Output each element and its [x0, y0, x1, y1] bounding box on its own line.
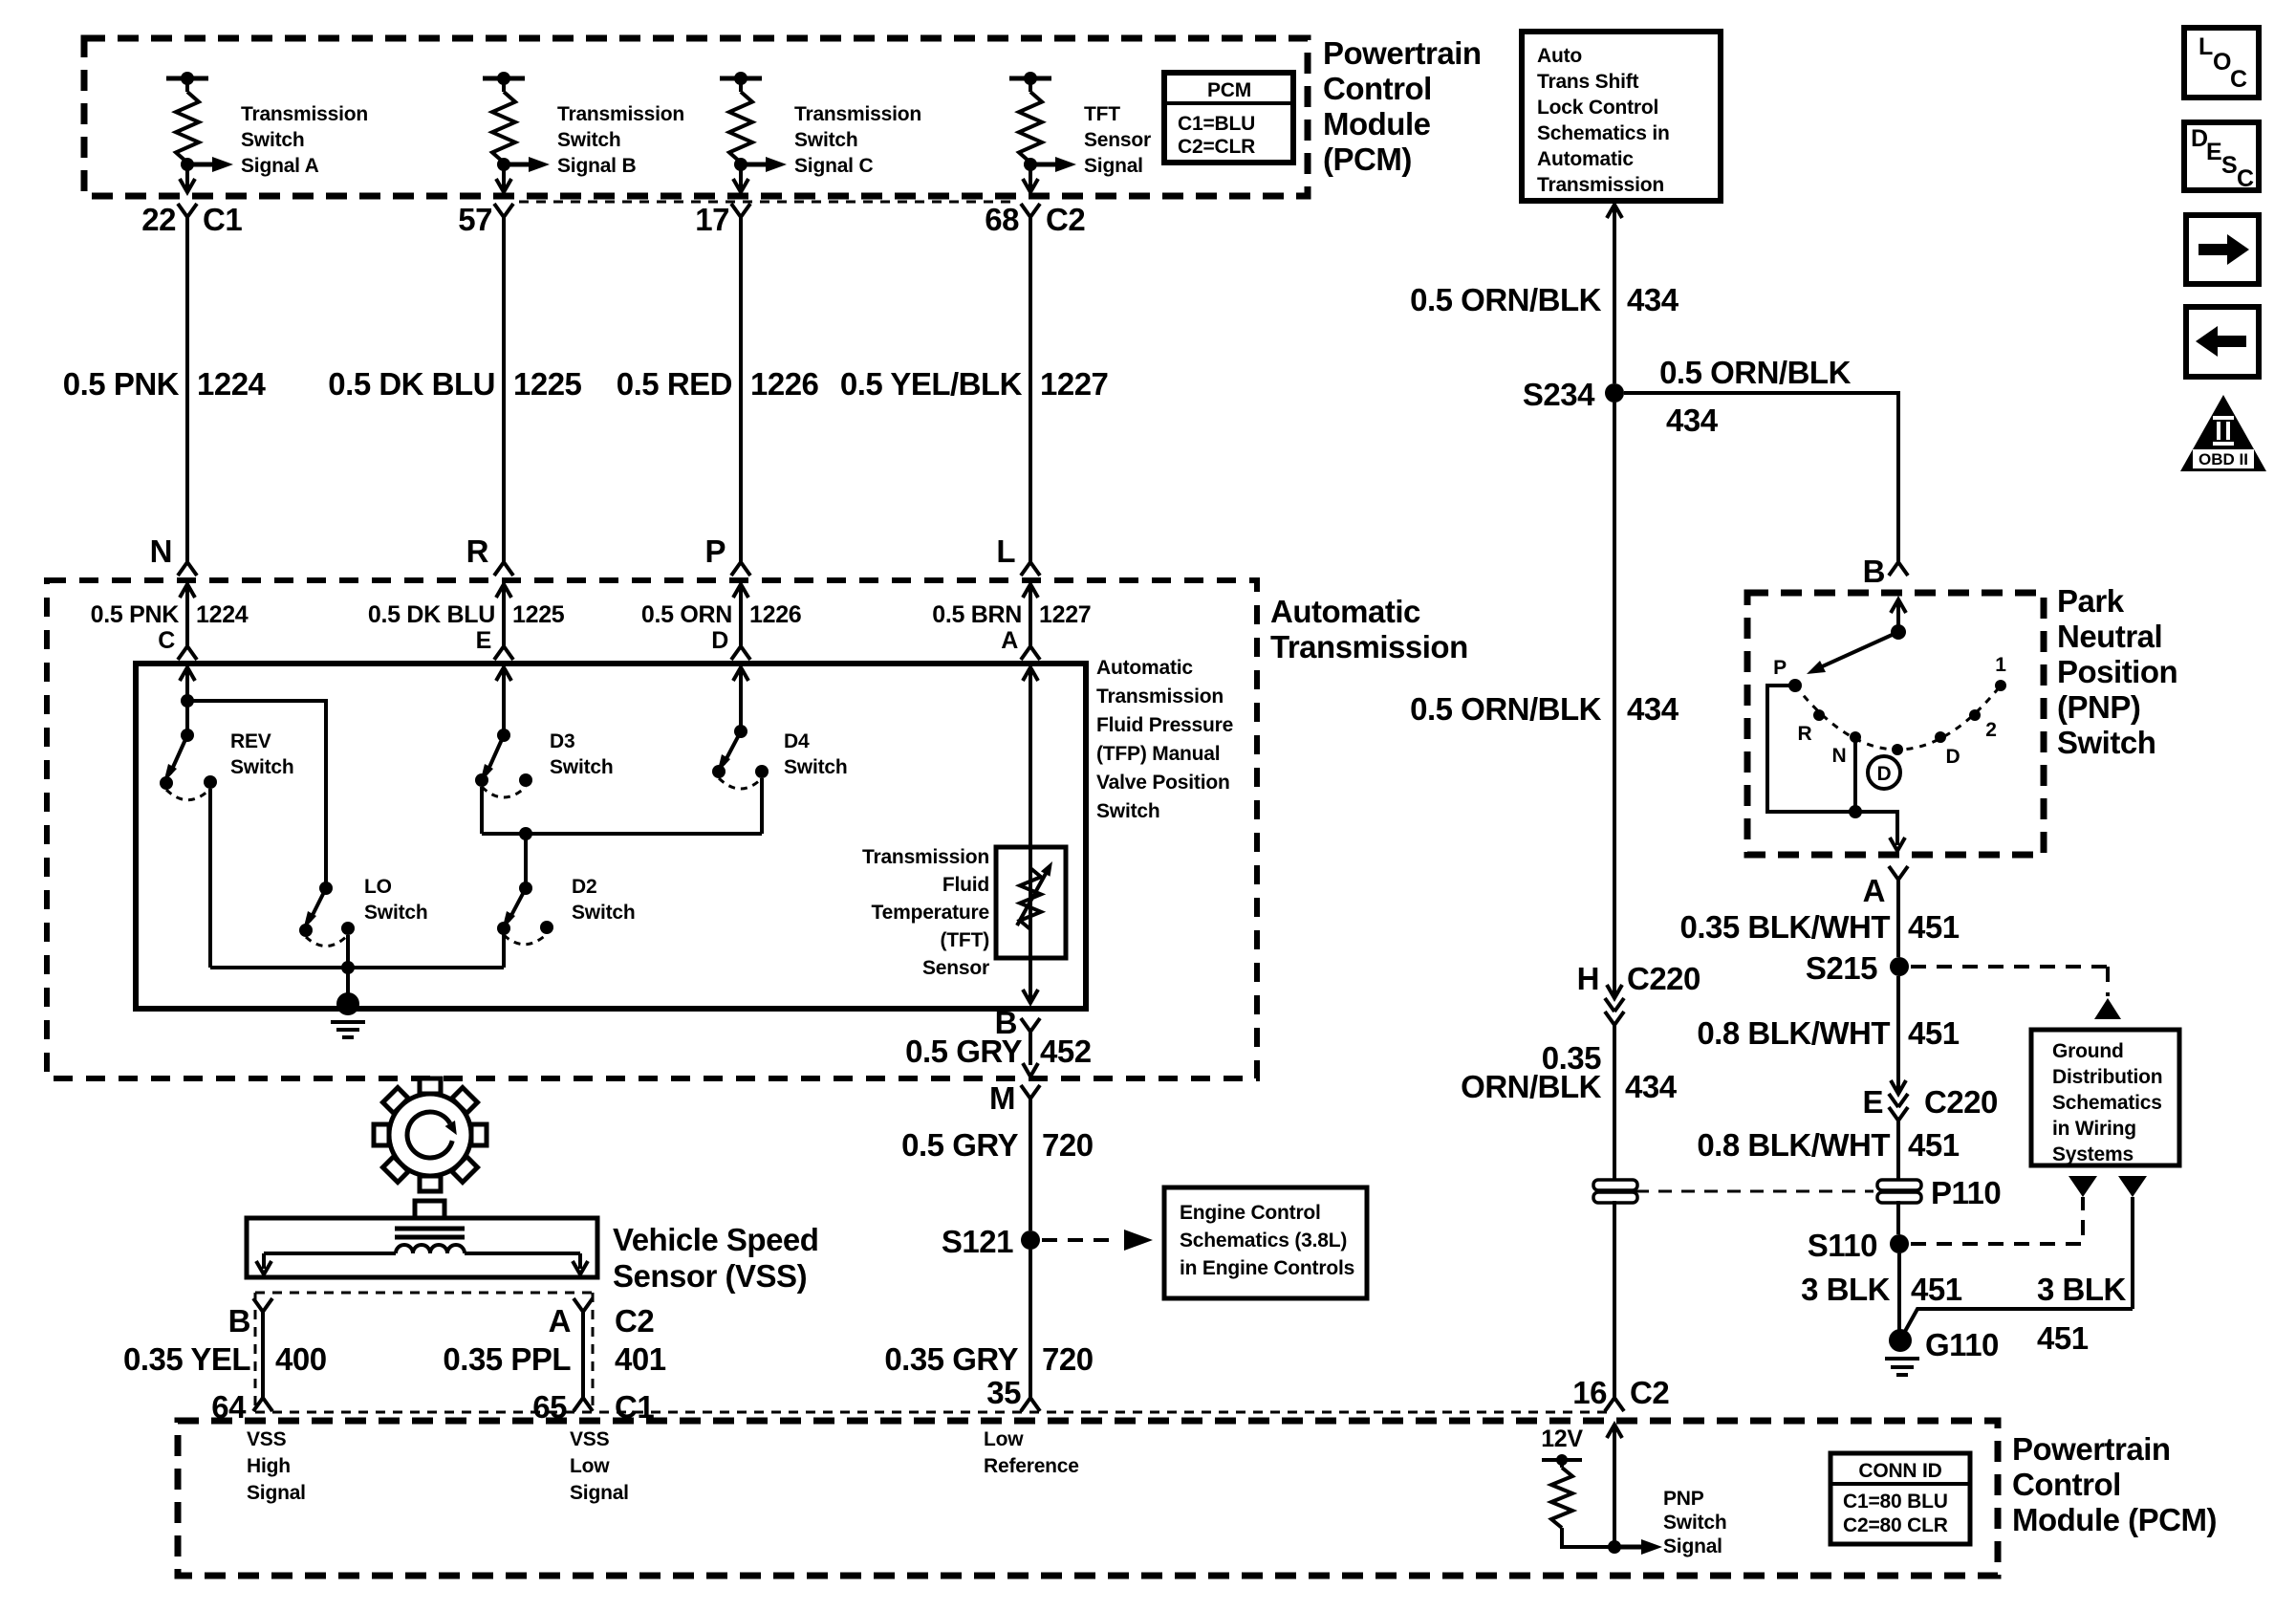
VSS pin B fork and wire 400: [253, 1298, 272, 1411]
svg-text:C2=80 CLR: C2=80 CLR: [1843, 1514, 1948, 1536]
label REV Switch: [230, 730, 293, 778]
wire label 0.5 GRY 452: [905, 1034, 1092, 1069]
svg-text:Switch: Switch: [1663, 1512, 1726, 1534]
svg-text:M: M: [989, 1080, 1015, 1116]
svg-text:Neutral: Neutral: [2057, 619, 2162, 654]
node: junction on wire C feeding REV switch and LO branch: [181, 694, 194, 708]
wire label 3 BLK 451 (right): [2037, 1272, 2127, 1356]
wire branch from C junction to LO switch: [187, 701, 326, 888]
svg-text:C2=CLR: C2=CLR: [1178, 136, 1255, 158]
svg-text:451: 451: [1908, 909, 1960, 945]
splice S110: [1890, 1234, 1909, 1253]
svg-text:B: B: [228, 1303, 250, 1339]
wire label 0.5 GRY 720: [901, 1127, 1093, 1163]
PNP connector fork pin A: [1889, 866, 1908, 957]
wire label 3 BLK 451 (left): [1801, 1272, 1962, 1307]
svg-text:A: A: [1863, 873, 1885, 908]
wire A from pin A down to TFT sensor: [1029, 667, 1032, 847]
wire circuit 1227 (0.5 YEL/BLK) vertical run: [1029, 217, 1032, 562]
ground G110 symbol: [1885, 1329, 1919, 1375]
svg-text:1227: 1227: [1040, 366, 1108, 402]
connector C1/C2 pin 68 fork: [1021, 204, 1040, 217]
label D3 Switch: [550, 730, 613, 778]
svg-text:D2: D2: [572, 876, 596, 898]
svg-text:LO: LO: [364, 876, 392, 898]
ground bus wire inside TFP switch: [210, 966, 504, 969]
link bus wire between D3 and D4 switches: [482, 832, 762, 836]
wire from D2 left contact to ground bus: [502, 934, 506, 968]
svg-text:Switch: Switch: [784, 756, 847, 778]
svg-text:0.5 ORN/BLK: 0.5 ORN/BLK: [1659, 355, 1852, 390]
PNP contact 1: [1995, 680, 2006, 691]
PNP switch signal arrow: [1614, 1539, 1662, 1555]
svg-text:1225: 1225: [512, 601, 565, 628]
svg-text:C220: C220: [1627, 961, 1700, 996]
wire 451 segment P110 to S110: [1896, 1201, 1900, 1234]
node: PNP output junction: [1849, 805, 1862, 818]
svg-text:PCM: PCM: [1207, 79, 1251, 101]
svg-text:720: 720: [1042, 1341, 1094, 1377]
svg-text:0.5 PNK: 0.5 PNK: [91, 601, 180, 628]
svg-text:68: 68: [985, 202, 1019, 237]
svg-text:0.5 ORN: 0.5 ORN: [641, 601, 732, 628]
svg-text:Reference: Reference: [984, 1455, 1079, 1477]
svg-text:Low: Low: [570, 1455, 610, 1477]
splice S234: [1605, 383, 1624, 403]
svg-text:Switch: Switch: [1096, 800, 1159, 822]
svg-text:C: C: [2237, 165, 2254, 192]
svg-text:N: N: [150, 533, 172, 569]
svg-text:0.35 PPL: 0.35 PPL: [443, 1341, 571, 1377]
PNP contact bottom (drive): [1892, 744, 1903, 755]
svg-text:0.5 RED: 0.5 RED: [617, 366, 732, 402]
connector fork pin B below TFP box: [1021, 1018, 1040, 1065]
svg-text:VSS: VSS: [247, 1428, 287, 1450]
Park Neutral Position Switch dashed outline: [1747, 593, 2044, 855]
svg-text:E: E: [1862, 1084, 1883, 1120]
svg-text:C2: C2: [615, 1303, 654, 1339]
label Powertrain Control Module (PCM) - bottom: [2012, 1431, 2217, 1537]
svg-text:S: S: [2221, 152, 2237, 179]
svg-text:452: 452: [1040, 1034, 1092, 1069]
connector C220 pin H (arrow + double fork): [1605, 985, 1624, 1025]
svg-text:G110: G110: [1925, 1327, 1999, 1362]
connector C1/C2 pin 57 fork: [494, 204, 513, 217]
svg-text:Ground: Ground: [2052, 1040, 2124, 1062]
splice S215: [1890, 957, 1909, 976]
wire label 0.35 BLK/WHT 451: [1679, 909, 1959, 945]
wire label 0.5 ORN/BLK 434 (top): [1410, 282, 1679, 317]
wire 434 segment C220 to P110: [1613, 1025, 1616, 1180]
svg-text:1226: 1226: [749, 601, 801, 628]
wire R4 exit arrow into connector: [1023, 164, 1038, 192]
OBD II badge: [2180, 395, 2266, 471]
svg-text:Vehicle Speed: Vehicle Speed: [613, 1222, 818, 1257]
svg-text:S110: S110: [1808, 1228, 1877, 1263]
svg-text:Schematics in: Schematics in: [1537, 122, 1670, 144]
AT box exit arrow on wire 452: [1023, 1063, 1038, 1077]
svg-text:12V: 12V: [1541, 1426, 1583, 1452]
wire 434 segment S234 to C220: [1613, 403, 1616, 994]
svg-text:Systems: Systems: [2052, 1143, 2134, 1165]
svg-text:S215: S215: [1806, 950, 1877, 986]
svg-text:Transmission: Transmission: [557, 103, 684, 125]
svg-text:Temperature: Temperature: [872, 902, 989, 924]
svg-text:Position: Position: [2057, 654, 2177, 689]
signal tap arrow (Transmission Switch Signal A): [181, 157, 233, 172]
wire from N contact to output bus: [1853, 737, 1857, 812]
wire 3 BLK 451 from ground note to G110: [1903, 1309, 2133, 1335]
dashed grommet link P110: [1635, 1190, 1874, 1193]
svg-text:N: N: [1832, 745, 1847, 767]
TFP switch connector fork + arrow pin D: [731, 612, 750, 701]
svg-text:451: 451: [2037, 1320, 2089, 1356]
nav icon DESC: [2184, 122, 2259, 192]
svg-text:C2: C2: [1046, 202, 1085, 237]
note box: Engine Control Schematics (3.8L) in Engine Controls: [1164, 1187, 1367, 1298]
svg-text:D: D: [1946, 746, 1960, 768]
ground note right exit arrow (to G110 wire): [2118, 1176, 2147, 1309]
wire label 0.5 RED 1226: [617, 366, 819, 402]
svg-text:16: 16: [1572, 1375, 1607, 1410]
svg-text:1224: 1224: [197, 366, 267, 402]
AT connector fork + entry arrow for pin R: [494, 562, 513, 612]
wire label 0.5 PNK 1224 (inside AT box): [91, 601, 249, 628]
svg-text:Module (PCM): Module (PCM): [2012, 1502, 2217, 1537]
svg-text:Module: Module: [1323, 106, 1431, 142]
wire from TFT sensor to TFP box edge with exit arrow: [1023, 958, 1038, 1003]
svg-text:Automatic: Automatic: [1537, 148, 1634, 170]
wire label 0.5 ORN 1226 (inside AT box): [641, 601, 802, 628]
wire from pull-up resistor to PNP signal node: [1562, 1528, 1614, 1547]
svg-text:C1=80 BLU: C1=80 BLU: [1843, 1491, 1948, 1513]
thermistor (TFT sensor element): [1017, 847, 1052, 958]
wire label 0.35 YEL 400: [123, 1341, 327, 1377]
resistor R1 (Transmission Signal A pull-up) with supply bar: [166, 72, 208, 163]
wire 434 top segment with arrow into note box: [1607, 205, 1622, 383]
svg-text:S234: S234: [1523, 377, 1595, 412]
nav icon back arrow: [2186, 307, 2259, 377]
wire label 0.8 BLK/WHT 451 (lower): [1697, 1127, 1959, 1163]
grommet P110 (left wire): [1593, 1180, 1637, 1203]
wire R1 exit arrow into connector: [180, 164, 195, 192]
svg-text:0.35 BLK/WHT: 0.35 BLK/WHT: [1679, 909, 1890, 945]
AT connector fork + entry arrow for pin N: [178, 562, 197, 612]
svg-text:Switch: Switch: [550, 756, 613, 778]
svg-text:Fluid Pressure: Fluid Pressure: [1096, 714, 1233, 736]
svg-text:PNP: PNP: [1663, 1488, 1704, 1510]
TFP Manual Valve Position Switch solid box: [136, 664, 1086, 1009]
svg-text:Signal A: Signal A: [241, 155, 319, 177]
svg-text:P: P: [704, 533, 726, 569]
svg-text:Transmission: Transmission: [241, 103, 368, 125]
svg-text:Switch: Switch: [557, 129, 620, 151]
PCM pin 35 fork (Low Reference): [1021, 1398, 1040, 1411]
wire label 0.35 GRY 720: [884, 1341, 1093, 1377]
svg-text:1227: 1227: [1039, 601, 1091, 628]
wire circuit 1226 (0.5 RED) vertical run: [739, 217, 743, 562]
VSS reluctor gear icon: [374, 1078, 487, 1191]
svg-text:1225: 1225: [513, 366, 582, 402]
svg-text:0.5 ORN/BLK: 0.5 ORN/BLK: [1410, 691, 1602, 727]
wire label 0.5 ORN/BLK 434 (middle): [1410, 691, 1679, 727]
svg-text:Schematics: Schematics: [2052, 1092, 2162, 1114]
label LO Switch: [364, 876, 427, 924]
svg-text:Auto: Auto: [1537, 45, 1582, 67]
svg-text:2: 2: [1985, 719, 1996, 741]
REV switch (blade + contacts): [160, 701, 217, 800]
svg-text:Automatic: Automatic: [1096, 657, 1193, 679]
Vehicle Speed Sensor body: [247, 1201, 597, 1277]
svg-text:17: 17: [695, 202, 729, 237]
TFT sensor box: [996, 847, 1066, 958]
wire from D4 right contact down to link bus: [760, 778, 764, 834]
VSS connector dashed outline: [255, 1293, 593, 1412]
resistor (PNP pull-up inside PCM): [1551, 1460, 1572, 1528]
svg-text:VSS: VSS: [570, 1428, 610, 1450]
TFP switch connector fork + arrow pin C: [178, 612, 197, 701]
label Transmission Fluid Temperature (TFT) Sensor: [862, 846, 989, 979]
AT connector fork + entry arrow for pin L: [1021, 562, 1040, 612]
12V supply bar: [1542, 1454, 1582, 1466]
label Vehicle Speed Sensor (VSS): [613, 1222, 818, 1294]
svg-text:3 BLK: 3 BLK: [1801, 1272, 1891, 1307]
svg-text:Sensor: Sensor: [1084, 129, 1151, 151]
svg-text:in Engine Controls: in Engine Controls: [1180, 1257, 1354, 1279]
svg-text:0.5 PNK: 0.5 PNK: [63, 366, 180, 402]
wire R2 exit arrow into connector: [496, 164, 511, 192]
svg-text:Fluid: Fluid: [942, 874, 989, 896]
connector C1/C2 pin 17 fork: [731, 204, 750, 217]
wire label 0.5 ORN/BLK 434 (branch): [1659, 355, 1852, 438]
signal tap arrow (Transmission Switch Signal C): [734, 157, 787, 172]
PCM pin 16 entry arrow and wire to junction: [1607, 1425, 1622, 1547]
svg-text:35: 35: [986, 1375, 1021, 1410]
svg-text:Control: Control: [1323, 71, 1432, 106]
svg-text:Park: Park: [2057, 583, 2125, 619]
svg-text:1224: 1224: [196, 601, 249, 628]
svg-text:Signal: Signal: [570, 1482, 629, 1504]
nav icon forward arrow: [2186, 215, 2259, 284]
svg-text:R: R: [466, 533, 489, 569]
svg-text:0.5 DK BLU: 0.5 DK BLU: [368, 601, 495, 628]
label Transmission Switch Signal A: [241, 103, 368, 177]
svg-text:A: A: [1001, 627, 1018, 654]
svg-text:Powertrain: Powertrain: [2012, 1431, 2171, 1467]
note box: Auto Trans Shift Lock Control Schematics in Automatic Transmission: [1522, 32, 1721, 201]
svg-text:High: High: [247, 1455, 291, 1477]
svg-text:Switch: Switch: [2057, 725, 2155, 760]
PNP contact D: [1935, 731, 1946, 743]
ground symbol (TFP switch common ground): [331, 968, 365, 1037]
svg-text:401: 401: [615, 1341, 666, 1377]
wire 451 segment C220 to P110: [1896, 1121, 1900, 1180]
svg-text:1: 1: [1995, 654, 2006, 676]
PNP contact arc (dashed): [1795, 686, 2001, 750]
wire label 0.5 DK BLU 1225 (inside AT box): [368, 601, 565, 628]
label TFT Sensor Signal: [1084, 103, 1151, 177]
wire 720 lower segment: [1029, 1250, 1032, 1398]
svg-text:OBD II: OBD II: [2199, 450, 2248, 468]
PNP contact N: [1850, 731, 1861, 743]
label Transmission Switch Signal C: [794, 103, 921, 177]
wire 451 segment S215 to C220: [1896, 976, 1900, 1090]
svg-text:Distribution: Distribution: [2052, 1066, 2162, 1088]
label VSS Low Signal: [570, 1428, 629, 1504]
wire label 0.5 DK BLU 1225: [328, 366, 581, 402]
wire from D3 left contact down to link bus: [480, 787, 484, 834]
wire from P contact to PNP output: [1767, 686, 1897, 845]
PNP exit arrow: [1890, 838, 1905, 851]
svg-text:57: 57: [458, 202, 492, 237]
VSS pin A fork and wire 401: [574, 1298, 593, 1411]
svg-text:Lock Control: Lock Control: [1537, 97, 1658, 119]
svg-text:0.5 BRN: 0.5 BRN: [932, 601, 1022, 628]
label D4 Switch: [784, 730, 847, 778]
wire label 0.5 YEL/BLK 1227: [840, 366, 1109, 402]
svg-text:C: C: [158, 627, 175, 654]
svg-text:0.8 BLK/WHT: 0.8 BLK/WHT: [1697, 1015, 1890, 1051]
svg-text:Valve Position: Valve Position: [1096, 772, 1230, 794]
svg-text:D4: D4: [784, 730, 810, 752]
grommet P110 (right wire): [1877, 1180, 1921, 1203]
nav icon LOC: [2184, 28, 2259, 98]
splice S121: [1021, 1230, 1040, 1250]
svg-text:0.5 YEL/BLK: 0.5 YEL/BLK: [840, 366, 1023, 402]
label Powertrain Control Module (PCM) - top: [1323, 35, 1482, 177]
TFP switch connector fork + arrow pin A: [1021, 612, 1040, 701]
svg-text:A: A: [549, 1303, 571, 1339]
svg-text:Sensor: Sensor: [922, 957, 989, 979]
svg-text:C1: C1: [203, 202, 242, 237]
note box: Ground Distribution Schematics in Wiring Systems: [2031, 1030, 2179, 1165]
wire circuit 1225 (0.5 DK BLU) vertical run: [502, 217, 506, 562]
wire 434 segment P110 to PCM pin 16: [1613, 1201, 1616, 1398]
wire label 0.35 ORN/BLK 434 (two lines): [1461, 1040, 1678, 1104]
D2 switch (blade + contacts): [497, 882, 553, 945]
signal tap arrow (Transmission Switch Signal B): [497, 157, 550, 172]
svg-text:0.5 GRY: 0.5 GRY: [905, 1034, 1022, 1069]
svg-text:400: 400: [275, 1341, 327, 1377]
wire from LO switch right contact to ground junction: [346, 935, 350, 968]
svg-text:Switch: Switch: [241, 129, 304, 151]
PCM pin number 65 and connector C1: [532, 1389, 654, 1425]
svg-text:Powertrain: Powertrain: [1323, 35, 1482, 71]
svg-text:S121: S121: [942, 1224, 1013, 1259]
svg-text:C: C: [2230, 66, 2247, 93]
svg-text:L: L: [2199, 33, 2213, 60]
svg-text:Transmission: Transmission: [1537, 174, 1664, 196]
label Transmission Switch Signal B: [557, 103, 684, 177]
svg-text:REV: REV: [230, 730, 271, 752]
svg-text:0.5 ORN/BLK: 0.5 ORN/BLK: [1410, 282, 1602, 317]
svg-text:434: 434: [1627, 691, 1679, 727]
PNP contact 2: [1969, 709, 1981, 721]
svg-text:Transmission: Transmission: [1096, 686, 1224, 708]
circled D indicator: [1868, 756, 1900, 789]
svg-text:(PCM): (PCM): [1323, 142, 1412, 177]
svg-text:1226: 1226: [750, 366, 819, 402]
svg-text:Switch: Switch: [364, 902, 427, 924]
PNP contact P: [1788, 679, 1802, 692]
svg-text:0.35 GRY: 0.35 GRY: [884, 1341, 1018, 1377]
svg-text:Transmission: Transmission: [1270, 629, 1468, 664]
svg-text:3 BLK: 3 BLK: [2037, 1272, 2127, 1307]
svg-text:451: 451: [1908, 1015, 1960, 1051]
svg-text:Signal: Signal: [247, 1482, 306, 1504]
svg-text:Switch: Switch: [794, 129, 857, 151]
PNP rotor feed arrow and pivot: [1891, 599, 1906, 640]
svg-text:Switch: Switch: [572, 902, 635, 924]
signal tap arrow (TFT Sensor Signal): [1024, 157, 1076, 172]
D3 switch (blade + contacts): [475, 667, 532, 797]
svg-text:Trans Shift: Trans Shift: [1537, 71, 1639, 93]
connector fork pin M below AT box: [1021, 1085, 1040, 1230]
svg-text:Control: Control: [2012, 1467, 2121, 1502]
svg-text:ORN/BLK: ORN/BLK: [1461, 1069, 1601, 1104]
svg-text:Transmission: Transmission: [794, 103, 921, 125]
wire label 0.5 BRN 1227 (inside AT box): [932, 601, 1091, 628]
svg-text:B: B: [1863, 554, 1885, 589]
node: link bus junction feeding D2: [519, 827, 532, 840]
svg-text:in Wiring: in Wiring: [2052, 1118, 2136, 1140]
node: ground bus junction: [341, 961, 355, 974]
wire from REV switch right contact down to ground bus: [208, 789, 212, 968]
svg-text:H: H: [1577, 961, 1599, 996]
svg-text:L: L: [996, 533, 1015, 569]
svg-text:Engine Control: Engine Control: [1180, 1202, 1321, 1224]
thin dashed PCM connector line: [255, 1411, 1614, 1414]
LO switch (blade + contacts): [299, 882, 355, 947]
svg-text:0.5 DK BLU: 0.5 DK BLU: [328, 366, 495, 402]
label VSS High Signal: [247, 1428, 306, 1504]
svg-text:Signal C: Signal C: [794, 155, 873, 177]
wire 3 BLK 451 segment to ground: [1897, 1253, 1901, 1333]
PCM module dashed outline (top Powertrain Control Module): [84, 38, 1308, 196]
label Automatic Transmission Fluid Pressure (TFP) Manual Valve Position Switch: [1096, 657, 1233, 822]
svg-text:D3: D3: [550, 730, 574, 752]
PCM module dashed outline (bottom Powertrain Control Module): [178, 1421, 1998, 1576]
PNP rotor blade pointing to P contact: [1807, 632, 1898, 674]
TFP switch connector fork + arrow pin E: [494, 612, 513, 701]
note box: CONN ID C1=80 BLU C2=80 CLR: [1830, 1453, 1970, 1544]
connector C1/C2 pin 22 fork: [178, 204, 197, 217]
svg-text:0.5 GRY: 0.5 GRY: [901, 1127, 1018, 1163]
label Park Neutral Position (PNP) Switch: [2057, 583, 2177, 760]
svg-text:(TFT): (TFT): [941, 929, 989, 951]
svg-text:P: P: [1773, 657, 1787, 679]
Automatic Transmission dashed outline: [47, 580, 1257, 1078]
svg-text:Signal: Signal: [1663, 1535, 1722, 1557]
D4 switch (blade + contacts): [712, 667, 769, 789]
svg-text:C1=BLU: C1=BLU: [1178, 113, 1255, 135]
resistor R2 (Transmission Signal B pull-up) with supply bar: [483, 72, 525, 163]
resistor R3 (Transmission Signal C pull-up) with supply bar: [720, 72, 762, 163]
svg-text:(PNP): (PNP): [2057, 689, 2140, 725]
svg-text:451: 451: [1911, 1272, 1962, 1307]
svg-text:434: 434: [1625, 1069, 1678, 1104]
svg-text:C220: C220: [1924, 1084, 1998, 1120]
label PNP Switch Signal: [1663, 1488, 1726, 1557]
svg-text:TFT: TFT: [1084, 103, 1120, 125]
dashed reference link from S121 to Engine Control note: [1042, 1230, 1153, 1251]
svg-text:Signal B: Signal B: [557, 155, 636, 177]
svg-text:E: E: [476, 627, 491, 654]
label Automatic Transmission: [1270, 594, 1468, 664]
svg-text:0.8 BLK/WHT: 0.8 BLK/WHT: [1697, 1127, 1890, 1163]
wire branch 434 from S234 to PNP switch pin B: [1624, 393, 1898, 562]
resistor R4 (TFT Signal pull-up) with supply bar: [1009, 72, 1051, 163]
